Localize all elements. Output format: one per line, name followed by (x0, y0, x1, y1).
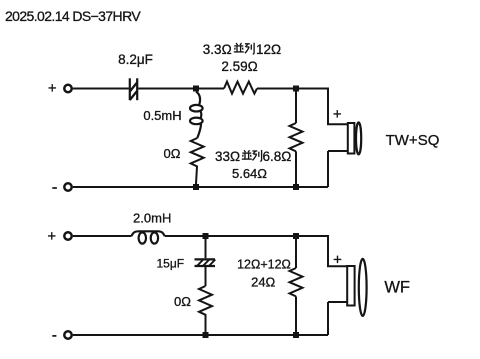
terminal + (top circuit input) (64, 85, 71, 92)
wire: node B down to resistor R3 (295, 92, 297, 124)
node D junction dot (bottom rail right) (293, 184, 299, 190)
node E junction dot (203, 233, 209, 239)
wire: speaker bottom stub (328, 150, 347, 152)
svg-text:+: + (333, 106, 342, 123)
terminal - (top circuit return) (64, 183, 71, 190)
wire: + terminal to capacitor C1 (73, 88, 129, 90)
wire: node A to resistor R2 (196, 88, 224, 90)
svg-text:12Ω+12Ω: 12Ω+12Ω (237, 258, 291, 272)
svg-text:6.8Ω: 6.8Ω (263, 149, 292, 164)
node B junction dot (293, 86, 299, 92)
wire: node F down to resistor R5 (295, 236, 297, 268)
kanji pair (3.3 parallel 12) (234, 43, 244, 52)
speaker WF driver rectangle (347, 266, 354, 306)
speaker TW+SQ driver rectangle (348, 123, 355, 154)
resistor R4 0ohm (shunt) (199, 286, 212, 332)
wire: node F to right rail corner (bottom circuit) (296, 236, 328, 266)
svg-text:+: + (47, 228, 56, 245)
svg-text:+: + (48, 80, 57, 97)
wire: inductor L2 to node E (165, 235, 206, 237)
wire: node B to right rail corner (296, 89, 328, 125)
resistor R2 2.59ohm (series) (224, 82, 257, 94)
terminal + (bottom circuit input) (64, 232, 71, 239)
svg-text:8.2μF: 8.2μF (118, 52, 153, 67)
wire: + terminal to inductor L2 (73, 235, 132, 237)
svg-text:12Ω: 12Ω (256, 42, 281, 57)
wire: node E down to capacitor C2 (205, 236, 207, 258)
svg-text:0Ω: 0Ω (164, 146, 181, 161)
wire: resistor R3 to bottom rail (295, 151, 297, 184)
wire: resistor R5 to bottom rail (295, 296, 297, 332)
svg-text:2.0mH: 2.0mH (133, 211, 171, 226)
kanji pair (33 parallel 6.8) (242, 150, 252, 159)
terminal - (bottom circuit return) (64, 331, 71, 338)
svg-text:0.5mH: 0.5mH (143, 108, 181, 123)
node G junction dot (203, 332, 209, 338)
wire: WF speaker top stub (327, 265, 347, 267)
wire: capacitor C1 to node A (138, 88, 196, 90)
wire: node E to node F (206, 235, 297, 237)
svg-text:2.59Ω: 2.59Ω (221, 59, 257, 74)
minus polarity label (bottom circuit) (52, 335, 56, 337)
speaker TW+SQ cone ellipse (356, 122, 361, 154)
wire: right rail lower segment (bottom circuit) (327, 302, 329, 335)
svg-text:2025.02.14 DS−37HRV: 2025.02.14 DS−37HRV (5, 8, 141, 24)
node C junction dot (bottom rail left) (193, 184, 199, 190)
svg-text:TW+SQ: TW+SQ (386, 132, 440, 149)
node A junction dot (193, 86, 199, 92)
wire: bottom rail (top circuit) (73, 186, 328, 188)
speaker WF cone ellipse (359, 259, 367, 316)
wire: resistor R2 to node B (257, 88, 296, 90)
svg-text:33Ω: 33Ω (215, 149, 240, 164)
svg-text:0Ω: 0Ω (174, 294, 191, 309)
svg-text:24Ω: 24Ω (251, 274, 275, 289)
svg-text:15μF: 15μF (157, 256, 185, 270)
wire: right rail lower segment (top circuit) (327, 151, 329, 187)
wire: WF speaker bottom stub (328, 301, 347, 303)
node H junction dot (293, 332, 299, 338)
wire: speaker top stub (327, 123, 347, 125)
node F junction dot (293, 233, 299, 239)
minus polarity label (top circuit) (52, 187, 57, 189)
wire: capacitor C2 to resistor R4 (205, 267, 207, 286)
inductor L2 2.0mH (series) (132, 231, 165, 243)
resistor R3 5.64ohm (shunt) (290, 123, 303, 151)
capacitor C2 15uF (shunt) (195, 259, 216, 266)
resistor R1 0ohm (shunt) (191, 138, 204, 184)
inductor L1 0.5mH (shunt) (190, 92, 203, 139)
svg-text:3.3Ω: 3.3Ω (203, 42, 232, 57)
wire: bottom rail (bottom circuit) (73, 334, 328, 336)
capacitor C1 8.2uF (130, 78, 137, 100)
svg-text:WF: WF (384, 279, 410, 297)
svg-text:5.64Ω: 5.64Ω (232, 166, 267, 181)
resistor R5 24ohm (shunt) (290, 268, 303, 296)
